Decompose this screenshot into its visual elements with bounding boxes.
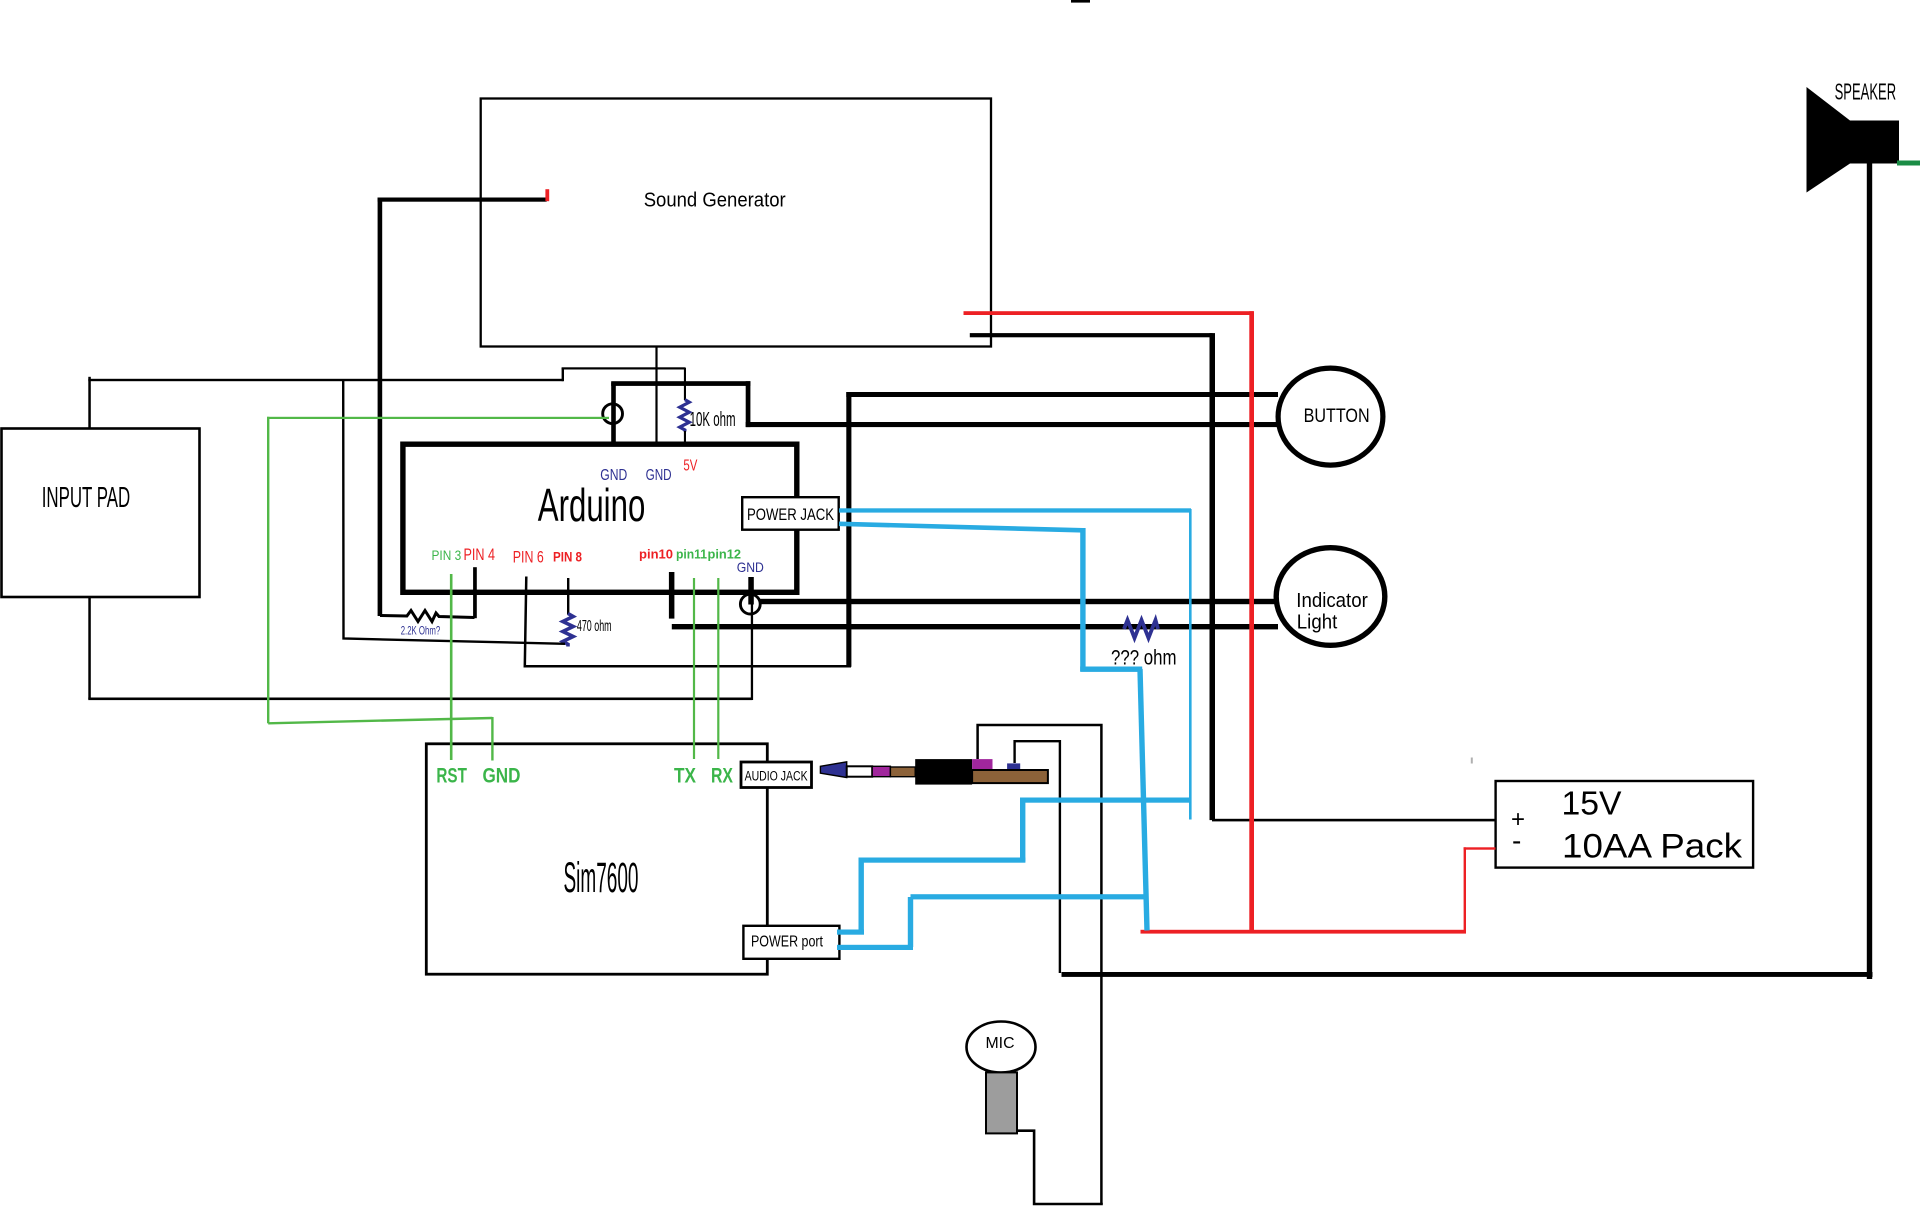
svg-text:PIN 6: PIN 6 [513,549,544,567]
svg-text:RST: RST [436,765,467,788]
svg-text:??? ohm: ??? ohm [1111,646,1177,670]
svg-text:SPEAKER: SPEAKER [1835,79,1897,105]
wire cyan horizontal y859 [859,858,1026,863]
svg-text:Sim7600: Sim7600 [564,854,639,902]
stray mark [1471,758,1473,764]
wire 470 resistor to input pad branch (sloped) [343,381,565,644]
power jack box [742,497,839,530]
wire cyan to power port bottom [837,945,913,950]
svg-text:GND: GND [646,467,672,484]
junction node gnd circle [740,594,760,614]
svg-text:2.2K Ohm?: 2.2K Ohm? [401,624,441,638]
top edge mark [1071,0,1090,3]
speaker body [1850,121,1899,164]
mic stem [986,1072,1017,1133]
power port box [743,926,839,959]
wire red to battery minus [1464,847,1496,849]
wire mic connection [1016,1131,1103,1204]
wire input pad bottom horizontal [88,698,752,701]
wire cyan power jack top stub and horizontal [839,508,1191,512]
wire to battery plus [1212,819,1496,822]
svg-text:10AA Pack: 10AA Pack [1562,828,1743,866]
battery pack box 15V 10AA [1496,781,1754,868]
jack plug barrel [847,766,873,776]
svg-text:POWER JACK: POWER JACK [747,505,835,524]
wire audio jack outer bracket [978,725,1102,1204]
sound generator box [481,99,991,347]
wire cyan vertical x1022 [1020,798,1025,862]
svg-text:5V: 5V [683,458,697,475]
svg-text:15V: 15V [1562,785,1622,822]
svg-text:Arduino: Arduino [538,479,646,531]
wire speaker green [1897,161,1920,166]
wire indicator bottom (thick) [672,624,1278,629]
jack plug shaft [890,767,915,777]
wire cyan power jack bottom stub (sloped) [839,524,1083,531]
svg-text:-: - [1512,825,1521,856]
svg-text:PIN 8: PIN 8 [553,550,582,565]
wire right thick vertical [846,392,851,667]
button [1278,368,1383,465]
svg-text:470 ohm: 470 ohm [577,618,612,635]
wire to button lower (thick) [746,422,1278,427]
wire cyan jog horizontal y670 [1080,667,1142,672]
jack brown plate [972,770,1048,783]
wire pin4 stub [473,567,477,618]
wire gnd pin bottom (thick) [748,577,754,605]
svg-text:Light: Light [1297,612,1338,634]
svg-text:PIN 3: PIN 3 [432,548,462,563]
wire cyan vertical x911 [908,897,913,947]
red tick at sound generator input [545,189,549,201]
indicator light [1276,548,1385,646]
wire 10K lower lead [684,431,686,446]
wire medium vertical x1211 [1210,333,1216,820]
wire pin6 run [525,577,851,667]
wire left vertical to 2.2K resistor [378,198,383,617]
svg-text:GND: GND [483,765,521,788]
wire cyan horizontal y897 [911,894,1146,899]
wire input pad top stub [88,377,91,429]
wire sound generator right black (medium) [970,333,1213,337]
wire pin8 stub [567,578,569,615]
wire cyan vertical x861 [859,858,864,935]
wire to button upper (thick) [846,392,1278,397]
svg-text:POWER port: POWER port [751,934,823,951]
wire audio jack inner bracket [1015,741,1060,973]
wire 10K upper lead [684,368,686,400]
jack plug tip [820,762,846,778]
wire cyan vertical x1083 [1080,528,1085,671]
wire upper thin horizontal to 10K [562,367,686,369]
wire red main vertical [1249,311,1254,933]
wire speaker vertical [1867,162,1872,979]
svg-text:pin11: pin11 [676,548,707,562]
sim7600 box [426,744,767,974]
wire green to sim gnd [491,717,493,761]
svg-text:Sound Generator: Sound Generator [644,190,786,212]
wire gnd1 pin (thick) [611,383,616,447]
wire red top horizontal [964,311,1254,315]
wire cyan to power port top [837,930,864,935]
wire top U horizontal (thick) [611,381,750,386]
svg-text:MIC: MIC [986,1035,1015,1052]
speaker horn [1807,87,1851,193]
jack magenta block [972,759,992,770]
wire green pin3 to rst [450,574,453,760]
resistor R2 470 ohm (zigzag) [563,614,573,647]
jack body block [915,759,972,785]
audio jack box [741,762,812,788]
wire green pin12 to rx [717,578,719,759]
wire input pad top horizontal [88,379,563,381]
wire red riser to battery minus [1464,847,1466,931]
mic body [967,1022,1036,1073]
wire gnd2 thin vertical from sound generator [655,347,657,447]
svg-text:TX: TX [674,765,696,788]
resistor R4 ??? ohm (zigzag) [1124,620,1158,638]
svg-text:GND: GND [737,559,764,575]
svg-text:GND: GND [600,467,627,484]
jack navy block [1007,763,1020,770]
svg-text:INPUT PAD: INPUT PAD [42,482,131,514]
wire top U right vertical (thick) [746,381,751,427]
wire gnd circle thin vertical [751,603,753,700]
svg-text:RX: RX [711,765,733,788]
resistor R1 2.2K (zigzag) [380,611,475,622]
wire cyan long vertical (slanted) [1140,669,1147,931]
wire pin10 pin (thick) [669,572,675,619]
wire sound generator input (thick) [378,198,547,202]
input pad box [2,429,200,598]
wire indicator top (thick) [748,599,1278,604]
wire bottom thick horizontal [1062,972,1873,977]
arduino box [403,444,797,592]
svg-text:pin10: pin10 [639,548,673,562]
svg-text:Indicator: Indicator [1296,590,1368,612]
wire step up [562,368,564,381]
wire green pin11 to tx [693,578,695,759]
svg-text:PIN 4: PIN 4 [464,546,496,564]
wire cyan thin vertical [1189,509,1192,820]
resistor R3 10K (zigzag) [680,400,690,432]
wire green left vertical [267,417,269,724]
wire red bottom horizontal [1141,930,1467,934]
wire green bottom sloped [268,718,492,723]
junction node green tap circle [603,404,623,424]
svg-text:AUDIO JACK: AUDIO JACK [745,769,808,784]
svg-text:10K ohm: 10K ohm [690,409,736,431]
wire green top horizontal to tap [267,417,609,419]
jack plug magenta ring [872,766,890,776]
wire input pad bottom stub [88,597,91,699]
wire cyan horizontal y800 [1020,798,1191,803]
svg-text:BUTTON: BUTTON [1304,406,1370,427]
